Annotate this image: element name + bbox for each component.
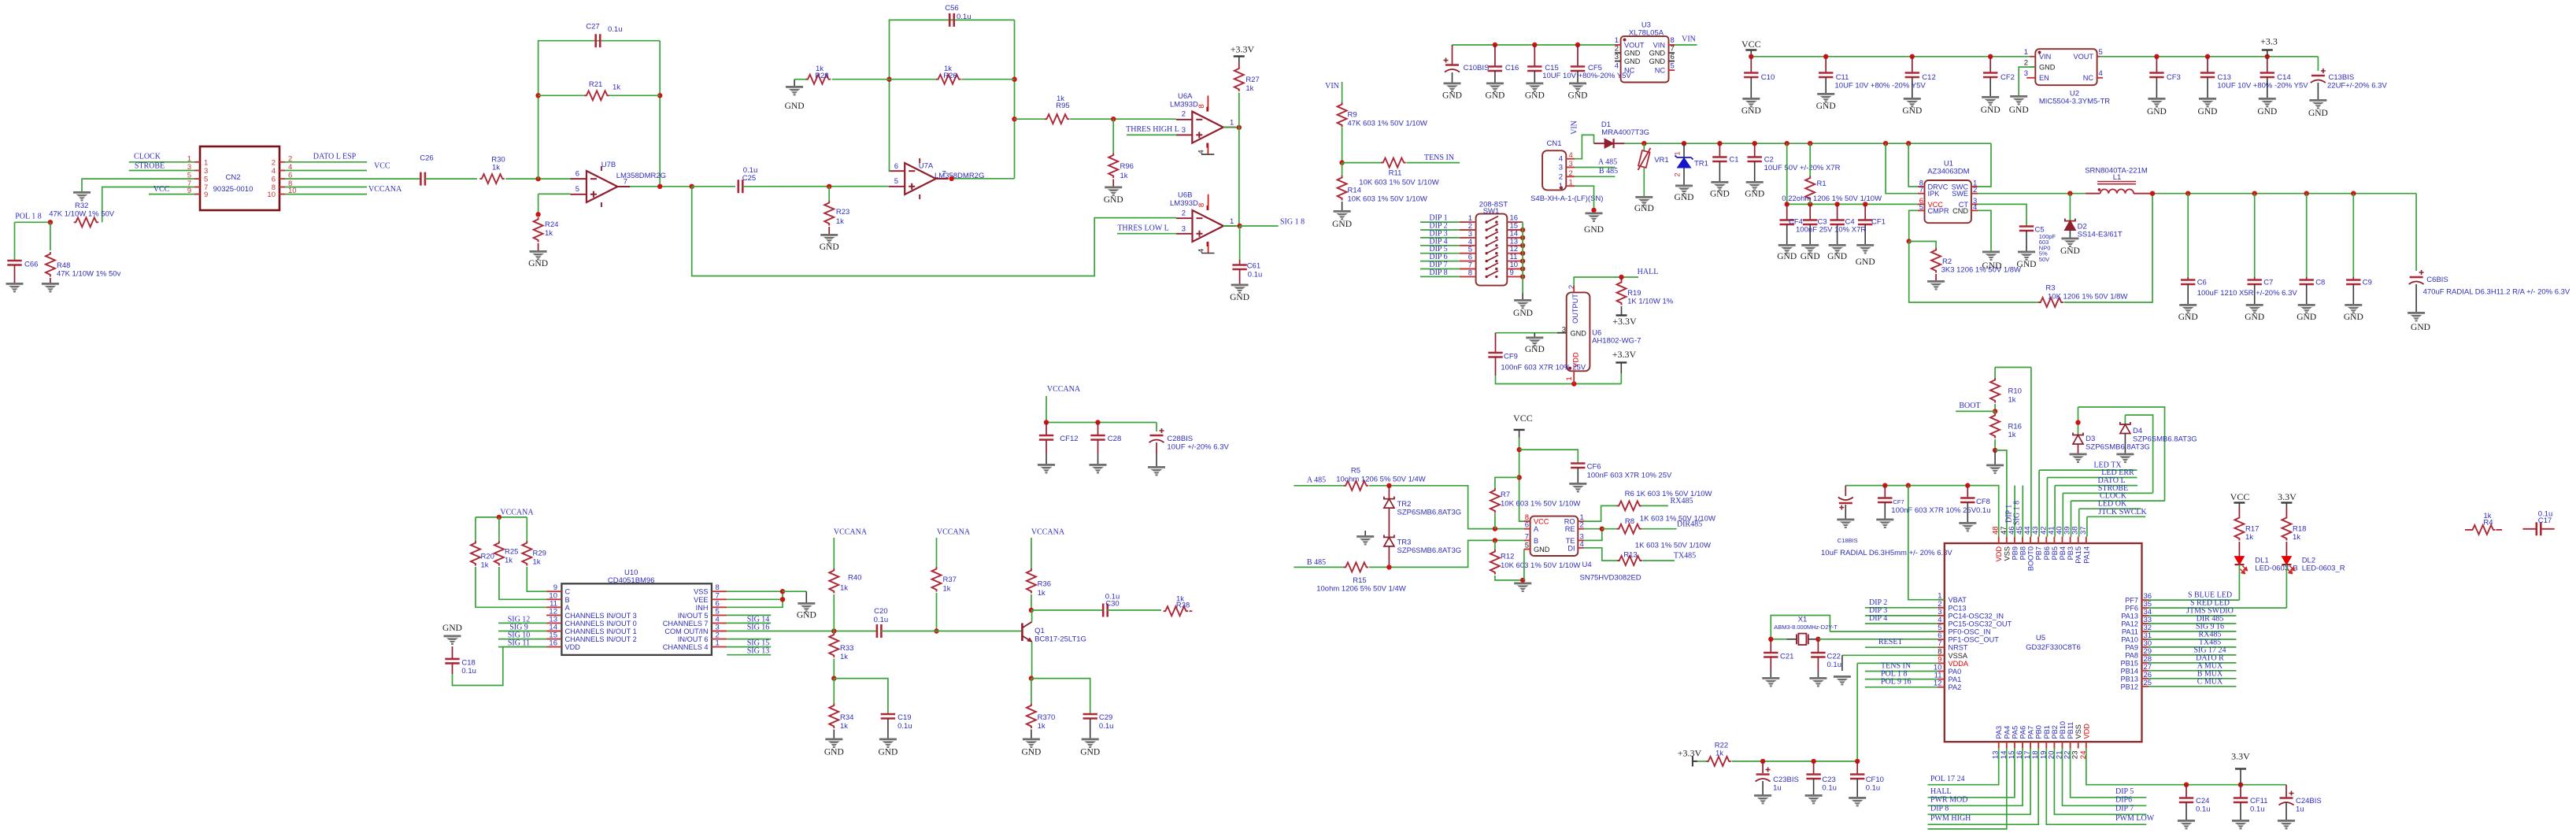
- lead D4 to ground: [2124, 434, 2126, 454]
- wire U4 RO to R6: [1584, 505, 1618, 521]
- wire net THRES LOW L to U6B pin3: [1117, 233, 1176, 235]
- svg-text:R40: R40: [848, 574, 861, 583]
- lead rail to C23: [1813, 761, 1815, 775]
- wire net POL 1 8: [1865, 679, 1938, 680]
- wire down to D4: [2124, 415, 2126, 424]
- lead R24 to ground: [538, 243, 539, 250]
- lead D2 to ground: [2069, 230, 2071, 237]
- svg-text:ABM3-8.000MHz-D2Y-T: ABM3-8.000MHz-D2Y-T: [1774, 624, 1838, 631]
- svg-text:C10: C10: [1761, 73, 1775, 82]
- svg-text:GND: GND: [1525, 345, 1545, 354]
- wire U2 GND pin to ground: [2019, 67, 2035, 95]
- wire rail to U1 DRVC: [1908, 143, 1918, 187]
- wire R26 to vertical: [961, 79, 1014, 80]
- wire rail to C9: [2352, 194, 2354, 277]
- wire net S RED LED: [2149, 607, 2286, 609]
- junction SW1 common: [1520, 228, 1525, 232]
- lead TR2 to TR3: [1388, 508, 1390, 537]
- svg-text:PA9: PA9: [2125, 643, 2138, 651]
- lead C6 to ground: [2187, 284, 2189, 304]
- CN2 pin 3: [194, 170, 200, 172]
- svg-text:SIG 1 8: SIG 1 8: [2013, 501, 2022, 525]
- svg-text:C14: C14: [2277, 73, 2290, 82]
- svg-text:PB7: PB7: [2035, 546, 2043, 560]
- svg-text:MIC5504-3.3YM5-TR: MIC5504-3.3YM5-TR: [2039, 98, 2110, 106]
- svg-text:THRES LOW L: THRES LOW L: [1117, 224, 1168, 232]
- multiplexer U10 CD4051BM96: [561, 583, 712, 655]
- U6B power pin 4: [1208, 242, 1209, 254]
- svg-text:R20: R20: [481, 553, 494, 561]
- svg-text:CF3: CF3: [2167, 73, 2181, 82]
- wire rail to U5 VBAT: [1908, 486, 1945, 600]
- svg-text:C56: C56: [945, 4, 958, 13]
- wire net DIP 2: [1420, 229, 1460, 231]
- svg-text:PA4: PA4: [2003, 726, 2011, 739]
- svg-text:U6B: U6B: [1178, 191, 1192, 200]
- svg-text:VDDA: VDDA: [1949, 660, 1969, 668]
- svg-text:PA12: PA12: [2121, 620, 2138, 628]
- U4 pin 3 TE: [1578, 539, 1584, 541]
- resistor R9 symbol: [1338, 102, 1347, 127]
- svg-text:9: 9: [204, 191, 208, 199]
- junction on U3 VOUT rail: [1532, 43, 1537, 47]
- svg-text:PB6: PB6: [2043, 546, 2051, 560]
- svg-text:C19: C19: [898, 713, 911, 722]
- wire rail to C8: [2306, 194, 2308, 277]
- ground under C16: [1486, 83, 1504, 85]
- svg-text:PA14: PA14: [2082, 546, 2090, 564]
- junction on VCC output rail: [2351, 191, 2356, 196]
- zener D3 symbol: [2073, 433, 2083, 435]
- junction POL 1 8 node: [48, 220, 53, 224]
- U5 pin 22 PB11: [2070, 742, 2071, 748]
- wire POL 1 8 to R32/R48 node: [15, 221, 50, 223]
- svg-text:10ohm 1206 5% 50V 1/4W: 10ohm 1206 5% 50V 1/4W: [1336, 476, 1426, 484]
- U5 pin 9 VDDA: [1938, 662, 1945, 664]
- svg-text:GND: GND: [1568, 91, 1588, 101]
- lead row to C3: [1809, 204, 1811, 220]
- svg-text:PA15: PA15: [2074, 546, 2082, 564]
- junction at U7B pin6 node: [535, 176, 540, 181]
- svg-text:BOOT0: BOOT0: [2027, 546, 2035, 571]
- wire node to R33: [833, 631, 835, 634]
- ground under CF8: [1959, 522, 1976, 524]
- op-amp U7B triangle: [587, 171, 618, 202]
- wire to C61: [1239, 226, 1241, 260]
- lead rail to CF11: [2240, 785, 2241, 798]
- wire VDDA to 3.3V rail: [1856, 663, 1858, 761]
- junction on VCC rail: [1749, 54, 1753, 59]
- svg-text:VCC: VCC: [1513, 413, 1533, 424]
- junction CF8: [1965, 483, 1970, 487]
- svg-text:VCCANA: VCCANA: [1047, 385, 1081, 394]
- U3 pin 7 GND: [1669, 52, 1675, 54]
- ground under SW1: [1514, 299, 1531, 302]
- svg-text:GND: GND: [820, 242, 839, 252]
- svg-text:R36: R36: [1038, 580, 1051, 589]
- svg-text:2: 2: [1559, 172, 1563, 181]
- lead CF1 to ground: [1864, 224, 1866, 244]
- svg-text:2: 2: [1615, 45, 1619, 54]
- ground under CF12: [1038, 464, 1055, 466]
- wire U6 OUTPUT to HALL: [1574, 277, 1638, 285]
- wire to R23: [828, 187, 830, 201]
- U6B power pin 8: [1208, 194, 1209, 210]
- svg-text:GND: GND: [1230, 293, 1249, 302]
- svg-text:R12: R12: [1501, 553, 1514, 561]
- lead rail to C18BIS: [1845, 486, 1846, 496]
- U3 pin 8 VIN: [1669, 44, 1675, 46]
- svg-text:R34: R34: [840, 713, 853, 722]
- svg-text:0.1u: 0.1u: [608, 25, 623, 34]
- lead D3 to ground: [2078, 444, 2079, 454]
- ground under C23BIS: [1754, 794, 1771, 797]
- capacitor CF1 symbol: [1858, 220, 1872, 225]
- svg-text:R10: R10: [2008, 387, 2022, 396]
- junction on 3.3V bottom rail: [2184, 783, 2189, 787]
- U5 pin 17 PA7: [2030, 742, 2031, 748]
- junction BOOT: [1993, 409, 1997, 413]
- ground under C3: [1801, 244, 1819, 246]
- svg-text:PC15-OSC32_OUT: PC15-OSC32_OUT: [1949, 620, 2012, 628]
- svg-text:GND: GND: [1675, 193, 1694, 202]
- diode D1 symbol: [1604, 139, 1614, 148]
- svg-text:PA6: PA6: [2019, 726, 2027, 739]
- svg-text:TENS IN: TENS IN: [1424, 154, 1454, 162]
- wire BOOT to R16: [1994, 411, 1996, 413]
- svg-text:C25: C25: [742, 174, 756, 183]
- svg-text:A 485: A 485: [1598, 158, 1617, 167]
- wire main VIN rail: [1624, 143, 1991, 144]
- svg-text:1: 1: [1615, 36, 1619, 45]
- wire to R95: [1015, 118, 1046, 120]
- svg-text:10UF 10V +80% -20% Y5V: 10UF 10V +80% -20% Y5V: [1835, 82, 1926, 91]
- ground under C2: [1746, 181, 1764, 183]
- U5 pin 39 PB3: [2070, 537, 2071, 543]
- svg-text:R33: R33: [840, 644, 853, 653]
- svg-text:C27: C27: [586, 23, 599, 31]
- wire Q1 collector up: [1031, 610, 1033, 622]
- U5 pin 42 PB6: [2045, 537, 2047, 543]
- lead rail to C15: [1534, 45, 1535, 67]
- svg-text:IN/OUT 5: IN/OUT 5: [678, 612, 709, 620]
- lead C17 right: [2541, 528, 2554, 530]
- ground under CF11: [2232, 820, 2249, 822]
- U10 pin 10 B: [546, 598, 561, 600]
- svg-text:47K 1/10W 1% 50V: 47K 1/10W 1% 50V: [49, 210, 115, 219]
- wire VDD rail to U5 pin48: [1845, 486, 1998, 537]
- capacitor C4 symbol: [1830, 220, 1844, 225]
- resistor R22 symbol: [1706, 757, 1730, 766]
- junction SW1 common: [1520, 258, 1525, 263]
- svg-text:10: 10: [267, 191, 276, 199]
- wire net DIP 4: [1420, 245, 1460, 246]
- U5 pin 13 PA3: [1998, 742, 2000, 748]
- wire node to R48: [50, 222, 51, 250]
- svg-text:CHANNELS IN/OUT 0: CHANNELS IN/OUT 0: [565, 620, 637, 628]
- regulator U3 XL78L05A: [1621, 36, 1669, 82]
- lead R2 to ground: [1935, 274, 1937, 280]
- junction on U3 VOUT rail: [1575, 43, 1580, 47]
- wire Q1 emitter down: [1031, 642, 1033, 679]
- svg-text:R23: R23: [836, 208, 849, 217]
- stem 3.3V bottom: [2240, 769, 2241, 785]
- wire U5 to CLOCK row: [2071, 501, 2072, 537]
- svg-text:C10BIS: C10BIS: [1464, 64, 1490, 72]
- LED DL2 symbol: [2282, 557, 2291, 565]
- wire net DIP 4: [1865, 623, 1938, 624]
- CN1 pin 4: [1566, 158, 1575, 160]
- wire DL2 to S RED LED: [2285, 565, 2287, 608]
- U5 pin 46 PB9: [2014, 537, 2015, 543]
- wire to crystal left: [1771, 639, 1786, 640]
- svg-text:GND: GND: [1741, 106, 1761, 116]
- capacitor C66 symbol: [7, 261, 21, 265]
- junction on 3.3V rail: [2154, 54, 2159, 59]
- lead CF2 to ground: [1989, 77, 1991, 96]
- lead CF12 to ground: [1046, 454, 1047, 464]
- svg-text:CHANNELS IN/OUT 1: CHANNELS IN/OUT 1: [565, 628, 637, 635]
- svg-text:PC14-OSC32_IN: PC14-OSC32_IN: [1949, 612, 2004, 620]
- svg-text:10UF 10V +80% -20% Y5V: 10UF 10V +80% -20% Y5V: [2217, 82, 2308, 91]
- svg-text:PWM LOW: PWM LOW: [2115, 814, 2155, 823]
- microcontroller U5 GD32F330C8T6: [1945, 543, 2142, 742]
- svg-text:PA10: PA10: [2121, 636, 2138, 644]
- junction CF12: [1044, 420, 1049, 424]
- svg-text:1k: 1k: [533, 558, 541, 567]
- stem +3.3V: [1620, 363, 1622, 373]
- svg-text:7: 7: [942, 170, 946, 179]
- stem U10 ground: [805, 591, 807, 602]
- svg-text:PB2: PB2: [2051, 725, 2059, 739]
- svg-text:SIG 1 8: SIG 1 8: [1280, 218, 1305, 227]
- ground under CF4: [1778, 244, 1796, 246]
- svg-text:R6 1K 603 1% 50V 1/10W: R6 1K 603 1% 50V 1/10W: [1625, 490, 1712, 498]
- ground under CF5: [1569, 83, 1586, 85]
- U5 pin 32 PA11: [2142, 631, 2149, 632]
- ground under C10: [1742, 98, 1760, 100]
- lead CF7 to ground: [1884, 502, 1886, 519]
- ground under R370: [1023, 739, 1040, 741]
- ground under C12: [1904, 98, 1921, 100]
- wire rail to U1 IPK: [1886, 143, 1918, 194]
- wire crystal loop: [1771, 616, 1830, 639]
- lead CF11 to ground: [2240, 802, 2241, 820]
- lead C8: [2306, 277, 2308, 280]
- U5 pin 20 PB2: [2053, 742, 2055, 748]
- lead to CF9: [1495, 333, 1497, 353]
- wire CN2 pin5 to ground: [82, 179, 194, 191]
- wire net VIN from U3: [1675, 44, 1697, 46]
- stem ground TR2 TR3: [1364, 531, 1366, 535]
- resistor R25 symbol: [494, 541, 504, 566]
- junction R26 left node: [886, 77, 891, 82]
- junction R40 R33 node: [831, 628, 836, 633]
- junction on VCC node row: [1808, 202, 1812, 206]
- svg-text:4: 4: [1559, 155, 1563, 164]
- wire CN1 pin1 to ground: [1575, 186, 1594, 210]
- lead CF10 to ground: [1856, 779, 1858, 797]
- wire net RESET: [1865, 646, 1938, 648]
- power symbol VCC at R17: [2234, 502, 2245, 503]
- svg-text:DIP 8: DIP 8: [1930, 804, 1949, 813]
- connector CN1: [1542, 150, 1566, 190]
- wire R29 to U10 C: [527, 567, 546, 591]
- svg-text:RESET: RESET: [1878, 638, 1903, 646]
- svg-text:GND: GND: [1777, 252, 1797, 261]
- svg-text:CND: CND: [1952, 207, 1968, 215]
- lead C9 to ground: [2352, 284, 2354, 304]
- U5 pin 5 PF0-OSC_IN: [1938, 631, 1945, 632]
- wire U6B output: [1223, 225, 1240, 227]
- lead to TR2: [1388, 486, 1390, 499]
- svg-text:1k: 1k: [492, 164, 500, 172]
- wire net DIR485: [1641, 528, 1676, 530]
- svg-text:3.3V: 3.3V: [2231, 751, 2250, 762]
- U5 pin 18 PB0: [2037, 742, 2039, 748]
- ground under C28BIS: [1148, 466, 1165, 468]
- wire net DATO L: [2055, 485, 2137, 487]
- ground under C11: [1817, 93, 1834, 95]
- wire net JTMS SWDIO: [2149, 615, 2237, 616]
- capacitor C23BIS symbol: [1756, 773, 1770, 776]
- capacitor C27 symbol: [596, 34, 601, 47]
- lead C18 down: [452, 663, 453, 674]
- resistor R18 symbol: [2282, 516, 2291, 541]
- svg-text:SWE: SWE: [1952, 190, 1968, 198]
- U1 pin 4 CND: [1971, 209, 1978, 211]
- U2 pin 3 EN: [2026, 77, 2035, 79]
- svg-text:PB15: PB15: [2121, 659, 2138, 667]
- svg-text:VCCANA: VCCANA: [937, 528, 971, 537]
- junction VEE: [780, 597, 785, 602]
- svg-text:4: 4: [1569, 151, 1573, 160]
- svg-text:3: 3: [2024, 69, 2028, 78]
- capacitor C12 symbol: [1905, 73, 1919, 78]
- ground under U4: [1514, 583, 1531, 585]
- svg-text:1k: 1k: [836, 217, 844, 226]
- lead C11 to ground: [1825, 77, 1827, 93]
- svg-text:1k: 1k: [840, 584, 848, 593]
- svg-text:1K 1/10W 1%: 1K 1/10W 1%: [1627, 298, 1674, 306]
- lead C4 to ground: [1837, 224, 1838, 244]
- wire U1 CT to C5: [1978, 204, 2026, 226]
- svg-text:R24: R24: [545, 220, 558, 229]
- svg-text:VCCANA: VCCANA: [1031, 528, 1065, 537]
- svg-text:PB8: PB8: [2019, 546, 2027, 560]
- svg-text:1K 603 1% 50V 1/10W: 1K 603 1% 50V 1/10W: [1635, 542, 1711, 550]
- U5 pin 11 PA1: [1938, 679, 1945, 680]
- ground under R48: [42, 283, 59, 285]
- wire C25 to U7A pin5: [743, 186, 889, 187]
- power symbol +3.3V under R19: [1616, 314, 1627, 316]
- svg-text:EN: EN: [2039, 74, 2049, 82]
- wire rail to C28BIS: [1156, 423, 1157, 432]
- svg-text:GND: GND: [1624, 50, 1641, 57]
- svg-text:HALL: HALL: [1638, 268, 1659, 276]
- wire emitter to C29: [1031, 679, 1090, 714]
- ground at CN2 pin5: [73, 191, 91, 194]
- U1 pin 5 CMPR: [1918, 209, 1925, 211]
- U5 pin 36 PF7: [2142, 599, 2149, 601]
- svg-text:+3.3V: +3.3V: [1678, 748, 1702, 759]
- wire rail down to VCC node row: [1786, 143, 1788, 204]
- svg-text:4: 4: [288, 163, 292, 172]
- U3 pin 3 GND: [1615, 61, 1621, 62]
- svg-text:D4: D4: [2133, 427, 2142, 435]
- wire net STROBE to CN2 pin3: [129, 170, 194, 172]
- svg-text:10ohm 1206 5% 50V 1/4W: 10ohm 1206 5% 50V 1/4W: [1316, 585, 1406, 594]
- wire VCC output rail: [2152, 193, 2416, 194]
- svg-text:6: 6: [894, 162, 898, 171]
- wire U5 to STROBE row: [2062, 493, 2063, 536]
- svg-text:10K 603 1% 50V 1/10W: 10K 603 1% 50V 1/10W: [1501, 561, 1580, 570]
- capacitor CF12 symbol: [1039, 435, 1053, 440]
- lead row to CF4: [1786, 204, 1788, 220]
- svg-text:R13: R13: [1623, 551, 1637, 560]
- svg-text:GND: GND: [1649, 50, 1666, 57]
- wire U10 IN/OUT 6: [727, 639, 771, 640]
- svg-text:7: 7: [1525, 532, 1529, 541]
- resistor R370 symbol: [1027, 704, 1036, 729]
- U5 pin 40 PB4: [2062, 537, 2063, 543]
- svg-text:100nF 603 X7R 10% 25V: 100nF 603 X7R 10% 25V: [1587, 472, 1672, 480]
- wire to R10: [1994, 368, 1996, 379]
- junction U7A output: [949, 176, 954, 181]
- svg-text:+3.3V: +3.3V: [1612, 316, 1637, 327]
- wire C30 to R38: [1108, 609, 1161, 611]
- wire U5 VSSA: [1842, 654, 1938, 656]
- ground at R16 bottom: [1986, 465, 2004, 467]
- U1 pin 6 VCC: [1918, 203, 1925, 205]
- wire net VCCANA from CN2 pin10: [285, 194, 367, 195]
- wire net DIP 3: [1865, 615, 1938, 616]
- svg-text:GND: GND: [2147, 107, 2167, 117]
- wire net SIG 9 16: [2149, 631, 2237, 632]
- svg-text:10K 603 1% 50V 1/10W: 10K 603 1% 50V 1/10W: [1501, 500, 1580, 509]
- U5 pin 1 VBAT: [1938, 599, 1945, 601]
- lead CF8 to ground: [1967, 502, 1968, 522]
- resistor R38 symbol: [1164, 606, 1188, 616]
- wire net B MUX: [2149, 678, 2237, 679]
- wire R3 to output rail: [2064, 194, 2152, 302]
- svg-text:100nF 603 X7R 10% 25V: 100nF 603 X7R 10% 25V: [1501, 364, 1586, 372]
- svg-text:U5: U5: [2036, 634, 2045, 642]
- wire to R21: [539, 94, 586, 96]
- svg-text:DI: DI: [1567, 544, 1575, 552]
- U3 pin 6 GND: [1669, 61, 1675, 62]
- lead rail to C12: [1912, 57, 1913, 73]
- svg-text:VIN: VIN: [2039, 53, 2051, 61]
- U1 pin 8 DRVC: [1918, 186, 1925, 187]
- svg-text:3: 3: [1615, 53, 1619, 61]
- svg-text:5: 5: [1671, 62, 1675, 71]
- lead C12 to ground: [1912, 77, 1913, 98]
- capacitor C2 symbol: [1748, 157, 1762, 162]
- wire U5 pin14 bottom row: [1928, 749, 2007, 829]
- ground under C10BIS: [1444, 83, 1461, 85]
- junction R12 top: [1493, 538, 1497, 542]
- lead R18 to DL2: [2285, 542, 2287, 557]
- U5 pin 10 PA0: [1938, 671, 1945, 672]
- svg-text:LM393D: LM393D: [1170, 101, 1198, 109]
- capacitor C6BIS symbol: [2410, 276, 2423, 279]
- lead VCC to R17: [2238, 507, 2240, 516]
- U5 pin 2 PC13: [1938, 607, 1945, 609]
- wire down to R24: [538, 194, 539, 214]
- lead to C22: [1817, 639, 1819, 653]
- lead rail to C24: [2186, 785, 2187, 798]
